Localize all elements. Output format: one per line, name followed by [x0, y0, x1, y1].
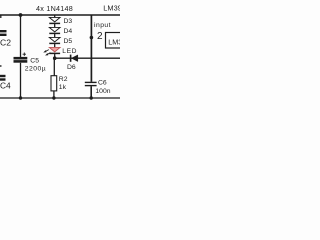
wire: LED to junction	[54, 54, 56, 58]
wire: C5 lower lead	[20, 63, 22, 98]
wire: stub D5-LED	[54, 44, 56, 47]
svg-text:4x 1N4148: 4x 1N4148	[36, 4, 73, 13]
node: C5 bottom junction	[19, 96, 22, 99]
svg-text:D6: D6	[67, 64, 76, 71]
capacitor C4 (left edge fragment)	[0, 66, 6, 80]
diode D3	[49, 17, 60, 23]
wire: C5 upper lead	[20, 15, 22, 57]
svg-text:100n: 100n	[95, 88, 110, 95]
svg-text:C2: C2	[0, 38, 11, 48]
svg-text:D4: D4	[64, 28, 73, 35]
svg-text:2: 2	[97, 31, 103, 42]
wire: bottom rail	[0, 97, 120, 99]
node: C6 bottom junction	[90, 96, 93, 99]
wire: stub D4-D5	[54, 34, 56, 37]
capacitor C2 (left edge fragment)	[0, 31, 7, 35]
node: junction top rail / C5 branch	[19, 13, 23, 17]
diode D6 (inline, cathode left)	[71, 55, 78, 62]
resistor R2	[51, 76, 57, 91]
IC type box (clipped at right edge)	[106, 33, 126, 49]
wire: stub D3-D4	[54, 24, 56, 27]
wire: horizontal net y=58 to right edge	[55, 57, 120, 59]
LED (red)	[44, 47, 60, 55]
svg-text:2200µ: 2200µ	[25, 65, 46, 72]
node: R2 bottom junction	[52, 96, 55, 99]
wire: diode chain stub from top rail	[54, 15, 56, 17]
background	[0, 0, 120, 120]
svg-text:R2: R2	[59, 76, 68, 83]
capacitor C5 (electrolytic 2200u)	[14, 53, 28, 62]
wire: C6 lower lead	[90, 86, 92, 98]
node: LED / D6 / R2 junction	[53, 56, 57, 60]
capacitor C6	[85, 82, 97, 85]
diode D4	[49, 27, 60, 33]
svg-text:C6: C6	[98, 79, 107, 86]
svg-text:input: input	[94, 22, 111, 29]
diode D5	[49, 37, 60, 43]
wire: R2 lower lead	[53, 91, 55, 98]
wire: IC input bus (vertical)	[90, 15, 92, 82]
svg-text:D5: D5	[64, 38, 73, 45]
svg-text:C5: C5	[30, 58, 39, 65]
svg-text:LED: LED	[62, 48, 77, 55]
svg-text:LM3: LM3	[108, 37, 120, 46]
svg-text:1k: 1k	[59, 84, 67, 91]
node: pin 2 junction	[90, 36, 94, 40]
wire: top supply rail	[0, 14, 120, 16]
wire: top-left stub	[0, 15, 2, 18]
svg-text:C4: C4	[0, 80, 11, 90]
svg-text:D3: D3	[64, 18, 73, 25]
svg-text:LM39: LM39	[103, 3, 120, 12]
wire: R2 upper lead	[53, 58, 55, 75]
